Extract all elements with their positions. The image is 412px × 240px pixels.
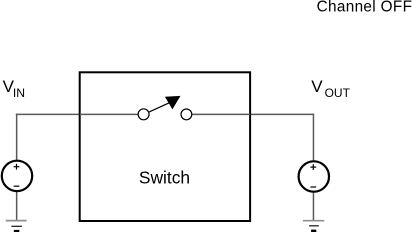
ground right (303, 220, 324, 222)
svg-text:V: V (311, 77, 323, 96)
switch arm arrowhead (165, 96, 181, 110)
switch arm (149, 103, 169, 112)
voltage source V_IN (2, 161, 32, 191)
svg-text:Channel OFF: Channel OFF (317, 0, 412, 16)
wire V_IN vertical down to source (16, 114, 18, 161)
ground left (6, 220, 27, 222)
wire inside box from right contact (192, 113, 250, 115)
switch left contact (138, 109, 149, 120)
switch right contact (181, 109, 192, 120)
svg-text:OUT: OUT (325, 86, 351, 100)
svg-text:IN: IN (13, 86, 25, 100)
wire V_OUT vertical down to source (312, 114, 314, 161)
wire right source to ground (312, 192, 314, 220)
voltage source V_OUT (299, 161, 329, 191)
wire left source to ground (16, 191, 18, 220)
wire V_IN horizontal to switch (16, 113, 138, 115)
switch block outline (80, 72, 250, 221)
wire switch to V_OUT horizontal (192, 113, 314, 115)
wire inside box to left contact (80, 113, 139, 115)
svg-text:Switch: Switch (139, 168, 190, 188)
